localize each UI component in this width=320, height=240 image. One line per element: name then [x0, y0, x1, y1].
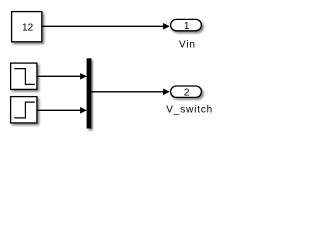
outport block 2	[171, 86, 202, 97]
arrowhead into outport Vin	[163, 23, 170, 30]
wire from constant to outport Vin	[42, 25, 163, 27]
svg-text:Vin: Vin	[179, 40, 196, 51]
arrowhead into outport V_switch	[163, 89, 170, 96]
step block (step up)	[11, 97, 37, 123]
step block (step down)	[11, 63, 37, 89]
svg-text:V_switch: V_switch	[166, 105, 213, 116]
outport block 1	[171, 19, 202, 30]
svg-text:12: 12	[22, 22, 34, 33]
svg-text:1: 1	[184, 21, 190, 32]
constant block "12"	[12, 12, 42, 42]
svg-text:2: 2	[184, 88, 190, 99]
wire from mux to outport V_switch	[92, 91, 164, 93]
step-up icon	[14, 102, 35, 118]
wire from step-down to mux	[38, 75, 82, 77]
arrowhead into mux (bottom input)	[80, 107, 87, 114]
mux block (vertical bar)	[87, 58, 92, 128]
step-down icon	[14, 69, 35, 85]
arrowhead into mux (top input)	[80, 73, 87, 80]
wire from step-up to mux	[38, 109, 82, 111]
